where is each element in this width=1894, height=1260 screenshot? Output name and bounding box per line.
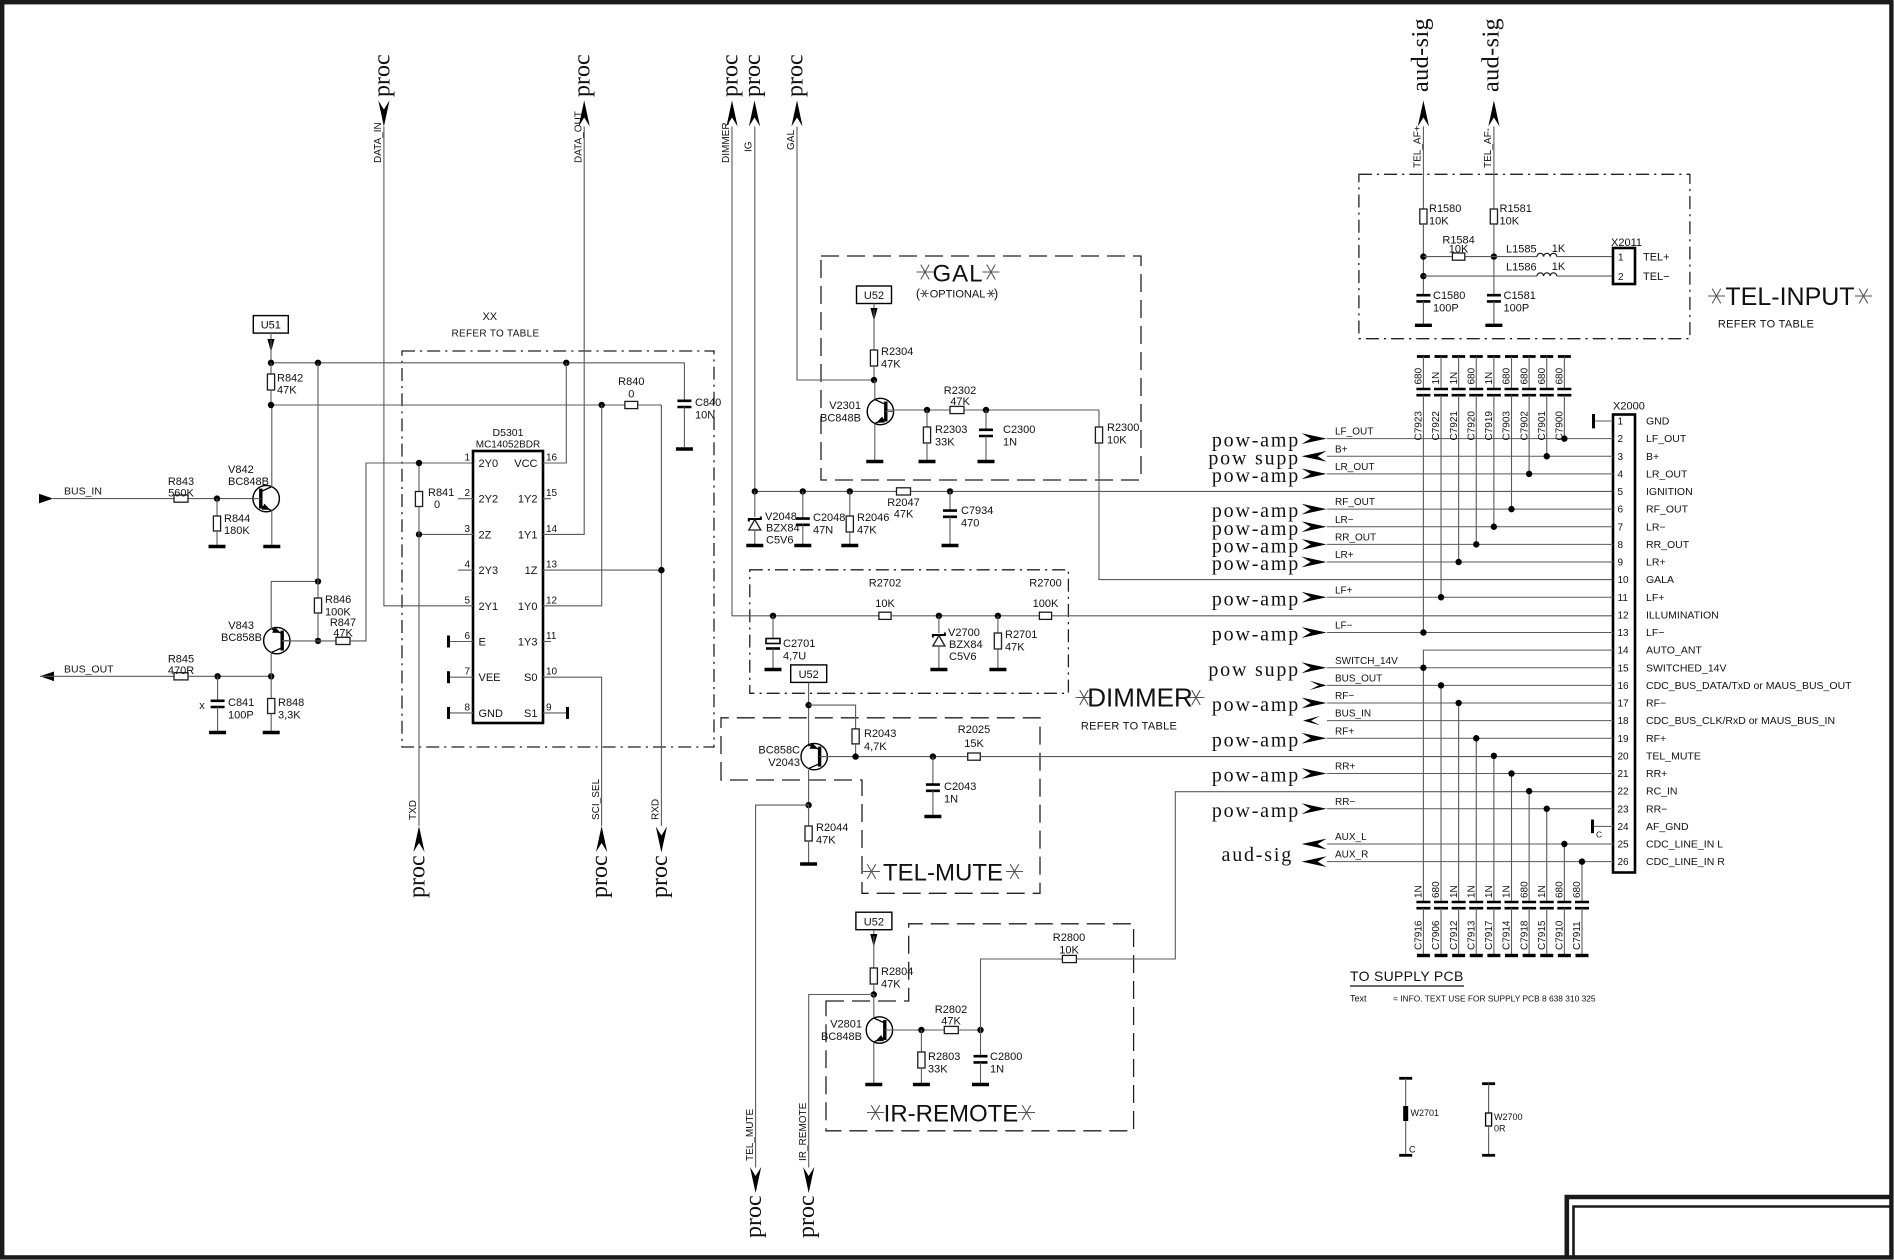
wire BUS_IN (53, 498, 174, 500)
wire L1586 to X2011 pin2 (1557, 275, 1613, 277)
jumper W2700 0R (1482, 1082, 1495, 1085)
svg-text:C2300: C2300 (1003, 424, 1035, 436)
svg-text:12: 12 (546, 595, 558, 606)
svg-text:560K: 560K (168, 488, 194, 500)
svg-text:RF+: RF+ (1646, 733, 1666, 745)
svg-text:1Y1: 1Y1 (518, 529, 538, 541)
node C7906 to pin 16 (1438, 682, 1444, 688)
svg-text:TEL-INPUT: TEL-INPUT (1725, 283, 1854, 311)
wire R847 to pin1 riser (350, 463, 473, 641)
wire pin3 2Z to TXD (419, 533, 473, 535)
svg-text:8: 8 (464, 702, 470, 713)
wire pin 13 LF− (1327, 632, 1613, 634)
svg-text:R2044: R2044 (816, 822, 848, 834)
resistor R2046 (849, 491, 851, 516)
svg-text:TEL_AF-: TEL_AF- (1483, 128, 1494, 168)
wire V2043 collector (808, 770, 810, 805)
wire V2301 emitter to ground (874, 424, 876, 461)
wire V2301 base rail (888, 409, 951, 411)
svg-text:47K: 47K (894, 509, 914, 521)
inductor L1586 1K (1537, 273, 1557, 276)
svg-text:U51: U51 (261, 320, 281, 332)
connector X2011 (1613, 248, 1635, 284)
svg-text:1N: 1N (1484, 885, 1495, 898)
node C7914 to pin 21 (1508, 770, 1514, 776)
svg-text:proc: proc (587, 855, 613, 898)
ground C2300 (978, 460, 995, 463)
wire pin 6 RF_OUT (1327, 508, 1613, 510)
wire DIMMER feed from arrow (732, 127, 879, 616)
pin 8 no-connect (450, 712, 474, 714)
transistor V2301 BC848B (867, 398, 893, 424)
svg-text:1: 1 (1618, 253, 1624, 264)
resistor R2802 (944, 1026, 958, 1033)
resistor R845 (174, 673, 188, 680)
resistor R1580 (1420, 209, 1427, 224)
wire base to C2800 node (958, 1029, 980, 1031)
capacitor C7923 680 (1417, 355, 1430, 358)
svg-text:C7914: C7914 (1502, 920, 1513, 950)
svg-text:14: 14 (546, 524, 558, 535)
svg-text:C7910: C7910 (1555, 920, 1566, 950)
pow-amp arrow (1302, 468, 1327, 479)
wire pin 18 BUS_IN (1327, 720, 1613, 722)
capacitor C7921 1N (1452, 355, 1465, 358)
jumper W2701 (1399, 1077, 1412, 1080)
svg-text:C5V6: C5V6 (766, 535, 794, 547)
svg-text:R2043: R2043 (864, 728, 896, 740)
svg-text:BUS_IN: BUS_IN (1335, 709, 1371, 720)
wire pin 17 RF− (1327, 702, 1613, 704)
ground V2700 (930, 668, 947, 671)
svg-text:REFER TO TABLE: REFER TO TABLE (1081, 721, 1177, 733)
wire pin 19 RF+ (1327, 737, 1613, 739)
svg-text:1Z: 1Z (525, 565, 538, 577)
svg-text:10K: 10K (1429, 216, 1449, 228)
svg-text:1Y3: 1Y3 (518, 637, 538, 649)
svg-text:U52: U52 (864, 290, 884, 302)
node C7903 to pin 6 (1508, 506, 1514, 512)
resistor R2701 (997, 616, 999, 633)
capacitor C7903 680 (1505, 355, 1518, 358)
title block corner (1567, 1197, 1891, 1257)
wire V2801 base rail (887, 1029, 945, 1031)
capacitor C841 (217, 676, 219, 701)
svg-text:S0: S0 (524, 672, 537, 684)
terminal pin24 AF_GND bar (1591, 820, 1594, 834)
wire U51 to net A with arrow (270, 333, 272, 339)
svg-text:CDC_LINE_IN L: CDC_LINE_IN L (1646, 839, 1723, 851)
capacitor C7902 680 (1523, 355, 1536, 358)
svg-text:C2048: C2048 (813, 512, 845, 524)
node V2043 collector junction (805, 802, 811, 808)
node C841 junction (214, 673, 220, 679)
svg-text:TO SUPPLY PCB: TO SUPPLY PCB (1350, 968, 1464, 984)
svg-text:100P: 100P (1433, 303, 1459, 315)
svg-text:proc: proc (741, 1195, 767, 1238)
svg-text:47K: 47K (333, 627, 353, 639)
box TEL-MUTE (dashed L-shape) (721, 718, 1040, 894)
wire TEL_MUTE to pin20 (980, 756, 1613, 758)
svg-text:U52: U52 (864, 916, 884, 928)
svg-text:aud-sig: aud-sig (1222, 844, 1293, 866)
svg-text:C7918: C7918 (1519, 920, 1530, 950)
svg-text:1Y0: 1Y0 (518, 601, 538, 613)
svg-text:LF+: LF+ (1335, 585, 1353, 596)
pin 7 no-connect (450, 676, 474, 678)
svg-text:LR+: LR+ (1646, 557, 1666, 569)
svg-text:1: 1 (1618, 417, 1624, 428)
svg-text:13: 13 (1618, 628, 1630, 639)
svg-text:6: 6 (464, 631, 470, 642)
svg-text:47K: 47K (950, 396, 970, 408)
net SCI_SEL proc arrow (bottom) (596, 826, 607, 852)
svg-text:C7919: C7919 (1484, 411, 1495, 441)
svg-text:ILLUMINATION: ILLUMINATION (1646, 609, 1719, 621)
resistor R2800 (1062, 955, 1076, 962)
svg-text:21: 21 (1618, 769, 1630, 780)
wire V843 collector down (270, 652, 272, 676)
capacitor C7934 (949, 491, 951, 510)
node C2701 junction (770, 613, 776, 619)
node C7915 to pin 23 (1544, 806, 1550, 812)
svg-text:C7915: C7915 (1537, 920, 1548, 950)
ground R2803 (913, 1083, 930, 1086)
svg-text:680: 680 (1519, 881, 1530, 898)
svg-text:IG: IG (744, 141, 755, 152)
svg-text:18: 18 (1618, 716, 1630, 727)
svg-text:4,7U: 4,7U (783, 651, 806, 663)
title DIMMER (1076, 690, 1093, 705)
node C7912 to pin 17 (1455, 700, 1461, 706)
wire net A horizontal (271, 362, 684, 364)
svg-text:LR−: LR− (1335, 515, 1354, 526)
svg-text:RR_OUT: RR_OUT (1646, 539, 1690, 551)
svg-text:V2043: V2043 (768, 757, 800, 769)
wire DIMMER rail right (891, 615, 1039, 617)
svg-text:OPTIONAL: OPTIONAL (930, 289, 986, 301)
svg-text:R845: R845 (168, 654, 194, 666)
svg-text:BUS_IN: BUS_IN (64, 486, 102, 498)
svg-text:S1: S1 (524, 708, 537, 720)
capacitor C7910 680 (1563, 844, 1565, 902)
pin 4 stub (458, 569, 473, 571)
wire GAL feed from arrow (797, 127, 874, 381)
capacitor C2048 (802, 491, 804, 518)
wire V843 emitter to rail (271, 581, 318, 629)
svg-text:1N: 1N (1414, 885, 1425, 898)
svg-text:C7922: C7922 (1431, 411, 1442, 441)
svg-text:pow-amp: pow-amp (1212, 553, 1300, 575)
wire IR_REMOTE output down (809, 995, 874, 1168)
pin 11 stub (543, 641, 551, 643)
ground R2701 (989, 668, 1006, 671)
svg-text:C7934: C7934 (961, 505, 993, 517)
svg-text:680: 680 (1502, 367, 1513, 384)
pow-amp arrow (1302, 627, 1327, 638)
capacitor C7920 680 (1470, 355, 1483, 358)
svg-text:5: 5 (464, 595, 470, 606)
svg-text:pow-amp: pow-amp (1212, 765, 1300, 787)
svg-text:11: 11 (1618, 593, 1629, 604)
resistor R2803 (920, 1030, 922, 1052)
svg-text:24: 24 (1618, 822, 1630, 833)
svg-text:680: 680 (1555, 367, 1566, 384)
svg-text:LR+: LR+ (1335, 550, 1354, 561)
svg-text:RF+: RF+ (1335, 726, 1354, 737)
svg-text:LF−: LF− (1646, 627, 1664, 639)
title TEL-MUTE (863, 864, 880, 879)
svg-text:C7912: C7912 (1449, 920, 1460, 950)
svg-text:TEL_MUTE: TEL_MUTE (745, 1108, 756, 1161)
svg-text:aud-sig: aud-sig (1478, 18, 1504, 92)
wire emitter node to R2043 (809, 705, 856, 729)
svg-text:10N: 10N (695, 410, 715, 422)
svg-text:1N: 1N (1449, 372, 1460, 385)
capacitor C2043 (932, 757, 934, 785)
svg-text:0: 0 (628, 389, 634, 401)
svg-text:R2047: R2047 (887, 497, 919, 509)
wire R2800 riser (981, 959, 1063, 1030)
resistor R846 (314, 598, 321, 613)
wire GALA to pin10 (1099, 443, 1613, 580)
svg-text:R2802: R2802 (935, 1004, 967, 1016)
svg-text:DIMMER: DIMMER (1087, 683, 1192, 713)
svg-text:1N: 1N (1484, 372, 1495, 385)
svg-text:R2701: R2701 (1005, 629, 1037, 641)
title TEL-INPUT (1708, 289, 1725, 304)
wire RXD riser (660, 405, 662, 826)
svg-text:C7906: C7906 (1431, 920, 1442, 950)
wire pin 8 RR_OUT (1327, 543, 1613, 545)
svg-text:680: 680 (1414, 367, 1425, 384)
svg-text:RXD: RXD (651, 799, 662, 820)
svg-text:RR_OUT: RR_OUT (1335, 532, 1376, 543)
svg-text:4,7K: 4,7K (864, 741, 887, 753)
svg-text:33K: 33K (935, 437, 955, 449)
svg-text:V842: V842 (228, 464, 254, 476)
svg-text:4: 4 (1618, 469, 1624, 480)
svg-text:DIMMER: DIMMER (721, 122, 732, 163)
svg-text:1N: 1N (1003, 437, 1017, 449)
svg-text:10: 10 (1618, 575, 1630, 586)
svg-text:BZX84: BZX84 (949, 639, 983, 651)
node C7918 to pin 22 (1526, 788, 1532, 794)
wire TEL- rail (1423, 275, 1537, 277)
svg-text:100P: 100P (228, 710, 254, 722)
resistor R2302 (950, 406, 964, 413)
svg-text:D5301: D5301 (493, 427, 524, 439)
svg-text:V843: V843 (228, 620, 254, 632)
connector X2000 (1613, 415, 1635, 873)
ground C840 (676, 447, 693, 450)
svg-text:GAL: GAL (786, 130, 797, 150)
wire TEL+ rail (1423, 256, 1452, 258)
svg-text:TEL_MUTE: TEL_MUTE (1646, 750, 1701, 762)
node C7916 to pin 15 (1420, 665, 1426, 671)
svg-text:14: 14 (1618, 646, 1630, 657)
node C7902 to pin 4 (1526, 471, 1532, 477)
svg-text:RR+: RR+ (1335, 762, 1355, 773)
resistor R2702 (879, 612, 891, 619)
svg-text:RF_OUT: RF_OUT (1646, 504, 1689, 516)
svg-text:C7902: C7902 (1519, 411, 1530, 441)
pow-amp arrow (1302, 698, 1327, 709)
svg-text:47K: 47K (277, 385, 297, 397)
wire L1585 to X2011 pin1 (1557, 256, 1613, 258)
wire pin14 AUTO_ANT to pin15 junction (1423, 650, 1613, 668)
wire pin 23 RR− (1327, 808, 1613, 810)
pow-amp arrow (1302, 521, 1327, 532)
svg-text:R2300: R2300 (1107, 422, 1139, 434)
svg-text:C1580: C1580 (1433, 290, 1465, 302)
svg-text:V2801: V2801 (830, 1019, 862, 1031)
resistor R840 (625, 401, 638, 408)
net IR_REMOTE proc arrow (bottom) (803, 1167, 814, 1193)
capacitor C7900 680 (1558, 355, 1571, 358)
wire ILLUMINATION to pin12 (1052, 615, 1613, 617)
svg-text:IR_REMOTE: IR_REMOTE (798, 1102, 809, 1161)
svg-text:pow-amp: pow-amp (1212, 465, 1300, 487)
svg-text:C5V6: C5V6 (949, 651, 977, 663)
svg-text:BC858B: BC858B (221, 632, 262, 644)
svg-text:SCI_SEL: SCI_SEL (591, 778, 602, 820)
svg-text:10K: 10K (1107, 435, 1127, 447)
svg-text:C1581: C1581 (1504, 290, 1536, 302)
transistor V2801 BC848B (866, 1017, 892, 1043)
svg-text:proc: proc (405, 855, 431, 898)
svg-text:LF_OUT: LF_OUT (1335, 427, 1373, 438)
svg-text:R2303: R2303 (935, 424, 967, 436)
svg-text:C2701: C2701 (783, 638, 815, 650)
svg-text:C840: C840 (695, 397, 721, 409)
svg-text:L1585: L1585 (1506, 244, 1537, 256)
wire V842 collector to net B (271, 405, 273, 487)
wire V2801 collector (873, 995, 875, 1019)
svg-text:VCC: VCC (514, 458, 537, 470)
resistor R2804 (870, 968, 877, 984)
svg-text:R2804: R2804 (881, 966, 913, 978)
svg-text:GAL: GAL (932, 261, 983, 288)
resistor R2304 (870, 350, 877, 366)
svg-text:2: 2 (1618, 434, 1624, 445)
capacitor C840 (683, 363, 685, 401)
transistor V843 BC858B (264, 627, 290, 653)
svg-text:BUS_OUT: BUS_OUT (1335, 673, 1382, 684)
svg-text:R848: R848 (278, 697, 304, 709)
wire base rail to R2300 (964, 409, 1099, 411)
capacitor C1581 (1487, 295, 1501, 301)
wire pin 16 BUS_OUT (1327, 684, 1613, 686)
pow-amp arrow (1302, 504, 1327, 515)
svg-text:R2700: R2700 (1029, 578, 1061, 590)
svg-text:XX: XX (482, 311, 497, 323)
node base/R846/R847 junction (315, 638, 321, 644)
wire V2801 emitter to ground (873, 1042, 875, 1083)
svg-text:R2304: R2304 (881, 346, 913, 358)
svg-text:47K: 47K (941, 1016, 961, 1028)
svg-text:TEL−: TEL− (1643, 271, 1670, 283)
wire TEL_AF- down (1493, 127, 1495, 210)
component U52 box (GAL) (857, 286, 892, 304)
svg-text:AUX_L: AUX_L (1335, 832, 1367, 843)
component U52 box (IR) (856, 912, 892, 930)
pow-amp arrow (1302, 539, 1327, 550)
svg-text:Text: Text (1350, 994, 1367, 1004)
node C7900 to pin 2 (1561, 435, 1567, 441)
svg-text:680: 680 (1431, 881, 1442, 898)
net RXD proc arrow (bottom) (656, 827, 667, 853)
svg-text:2: 2 (1618, 272, 1624, 283)
resistor R844 (216, 499, 218, 516)
component U51 box (253, 316, 288, 334)
wire pin5 2Y1 to DATA_IN riser (384, 127, 473, 606)
ground C1581 (1485, 324, 1502, 327)
svg-text:10: 10 (546, 667, 558, 678)
resistor R1584 (1452, 253, 1464, 260)
node C7921 to pin 9 (1455, 559, 1461, 565)
svg-text:AUX_R: AUX_R (1335, 850, 1368, 861)
svg-text:RC_IN: RC_IN (1646, 786, 1678, 798)
svg-text:6: 6 (1618, 505, 1624, 516)
wire pin 9 LR+ (1327, 561, 1613, 563)
svg-text:15: 15 (1618, 663, 1630, 674)
capacitor C2300 (985, 410, 987, 430)
svg-text:1N: 1N (990, 1064, 1004, 1076)
ground R848 (263, 731, 280, 734)
capacitor C7901 680 (1540, 355, 1553, 358)
svg-text:LF−: LF− (1335, 621, 1353, 632)
svg-text:7: 7 (464, 667, 470, 678)
pow-amp arrow (1302, 768, 1327, 779)
node C7919 to pin 7 (1491, 524, 1497, 530)
ground C1580 (1415, 324, 1432, 327)
pin 6 no-connect (450, 641, 474, 643)
svg-text:2Z: 2Z (479, 529, 492, 541)
net DATA_IN proc arrow (top) (378, 101, 389, 127)
node V2801 collector junction (871, 991, 877, 997)
svg-text:proc: proc (570, 54, 596, 97)
component U52 box (DIMMER supply) (791, 665, 827, 683)
svg-text:10K: 10K (1500, 216, 1520, 228)
node R843/R844/base junction (214, 495, 220, 501)
box DIMMER (dash-dot) (750, 570, 1069, 694)
svg-text:RF_OUT: RF_OUT (1335, 497, 1375, 508)
svg-text:15K: 15K (964, 738, 984, 750)
ground C2800 (972, 1083, 989, 1086)
wire pin 25 AUX_L (1327, 843, 1613, 845)
svg-text:C: C (1596, 829, 1602, 839)
svg-text:GALA: GALA (1646, 574, 1674, 586)
svg-text:470: 470 (961, 518, 979, 530)
ground C841 (209, 731, 226, 734)
wire pin 2 LF_OUT (1327, 438, 1613, 440)
svg-text:10K: 10K (875, 598, 895, 610)
wire pin 7 LR− (1327, 526, 1613, 528)
svg-text:SWITCH_14V: SWITCH_14V (1335, 656, 1398, 667)
wire pin 26 AUX_R (1327, 861, 1613, 863)
svg-text:R843: R843 (168, 476, 194, 488)
resistor R848 (270, 676, 272, 698)
resistor R2300 (1098, 410, 1100, 427)
svg-text:5: 5 (1618, 487, 1624, 498)
transistor V842 BC848B (253, 485, 279, 511)
svg-text:1N: 1N (1449, 885, 1460, 898)
wire pin16 VCC riser to net A (543, 363, 566, 463)
wire pin10 S0 to SCI_SEL (543, 677, 602, 826)
wire TEL_AF+ down (1422, 127, 1424, 210)
ground C2048 (794, 544, 811, 547)
